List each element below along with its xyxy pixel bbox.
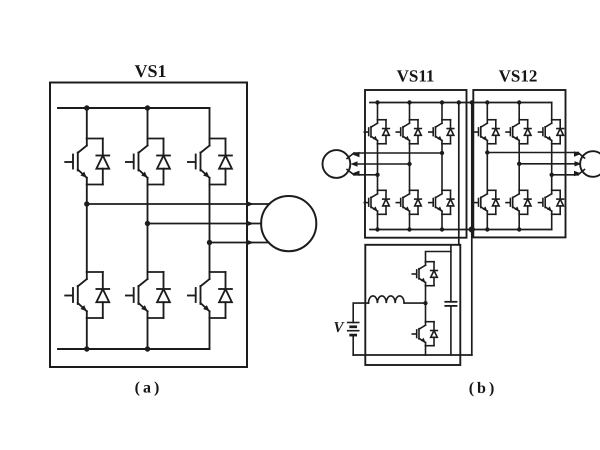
IGBT V5 with freewheel diode (VS1 top row leg3) bbox=[187, 139, 232, 185]
wire phase U output (a) bbox=[87, 203, 269, 205]
battery V plate long bottom bbox=[348, 330, 359, 332]
junction DC+ rail x=409.5 bbox=[407, 100, 411, 104]
wire phase W output (a) bbox=[210, 242, 269, 244]
wire leg x=377.5 lower (b) bbox=[377, 214, 379, 229]
capacitor C plate bottom bbox=[445, 305, 456, 307]
IGBT V13 with diode (VS11 top) bbox=[396, 120, 422, 144]
svg-text:VS11: VS11 bbox=[397, 67, 435, 86]
junction DC+ rail x=377.5 bbox=[375, 100, 379, 104]
wire battery bottom lead bbox=[352, 335, 354, 355]
arrow VS11 phase top bbox=[353, 152, 360, 157]
wire leg x=487.3 lower (b) bbox=[486, 214, 488, 229]
wire chopper midpoint bbox=[425, 286, 427, 322]
VS1 DC+ rail bbox=[58, 107, 210, 109]
IGBT V15 with diode (VS11 top) bbox=[428, 120, 454, 144]
wire leg x=442.0 upper (b) bbox=[441, 103, 443, 120]
VS1 DC- rail bbox=[58, 348, 210, 350]
junction DC- rail x=377.5 bbox=[375, 227, 379, 231]
wire DC+ bus vertical W1 bbox=[458, 103, 460, 245]
svg-text:(a): (a) bbox=[135, 380, 163, 397]
junction DC- rail x=442.0 bbox=[440, 227, 444, 231]
IGBT V1 with freewheel diode (VS1 top row leg1) bbox=[64, 139, 109, 185]
wire VS11 phase bottom diagonal bbox=[347, 170, 354, 175]
wire leg x=377.5 middle (b) bbox=[377, 144, 379, 191]
wire leg x=551.7 lower (b) bbox=[551, 214, 553, 229]
wire leg x=519.2 lower (b) bbox=[518, 214, 520, 229]
arrow VS11 phase mid bbox=[351, 161, 358, 166]
chopper box (b) bbox=[365, 245, 460, 365]
arrow phase W (a) bbox=[246, 240, 254, 246]
junction phase W / leg3 bbox=[207, 240, 212, 245]
IGBT V23 with diode (VS12 top) bbox=[505, 120, 531, 144]
wire DC- bottom rail (b) bbox=[353, 354, 472, 356]
arrow phase V (a) bbox=[246, 221, 254, 227]
IGBT V12 with diode (VS11 bottom) bbox=[428, 190, 454, 214]
battery V plate long top bbox=[348, 322, 359, 324]
battery V plate short top bbox=[351, 325, 356, 328]
arrow VS12 phase mid bbox=[575, 161, 582, 166]
IGBT V26 with diode (VS12 bottom) bbox=[505, 190, 531, 214]
wire VS1 leg1 lower bbox=[86, 318, 88, 349]
shared DC+ rail (b) bbox=[370, 102, 552, 104]
wire leg x=487.3 upper (b) bbox=[486, 103, 488, 120]
junction VS11 phase mid / leg2 bbox=[407, 162, 411, 166]
junction DC+ rail x=458.8 bbox=[457, 100, 461, 104]
IGBT V6 with freewheel diode (VS1 bottom row leg2) bbox=[125, 272, 170, 318]
wire VS11 phase top bbox=[354, 152, 442, 154]
wire inductor to midpoint bbox=[404, 302, 425, 304]
wire VS11 phase top diagonal bbox=[347, 153, 354, 159]
wire leg x=487.3 middle (b) bbox=[486, 144, 488, 191]
wire VS11 phase bottom bbox=[354, 174, 378, 176]
junction midpoint / inductor bbox=[423, 301, 427, 305]
wire leg x=551.7 middle (b) bbox=[551, 144, 553, 191]
wire VS1 leg3 middle bbox=[209, 185, 211, 273]
wire chopper upper collector bbox=[426, 252, 451, 262]
arrow phase U (a) bbox=[246, 201, 254, 207]
inverter box VS12 bbox=[473, 90, 565, 237]
svg-text:(b): (b) bbox=[469, 380, 498, 397]
inverter box VS11 bbox=[365, 90, 467, 238]
junction VS1 leg2 / DC- rail bbox=[145, 346, 150, 351]
inverter box VS1 bbox=[50, 83, 247, 368]
junction DC- rail x=409.5 bbox=[407, 227, 411, 231]
junction VS1 leg1 / DC+ rail bbox=[84, 105, 89, 110]
IGBT V2 with freewheel diode (VS1 bottom row leg3) bbox=[187, 272, 232, 318]
junction VS11 phase bottom / leg1 bbox=[375, 173, 379, 177]
junction VS12 phase top / leg1 bbox=[485, 150, 489, 154]
shared DC- rail (b) bbox=[370, 229, 552, 231]
wire capacitor lower bbox=[450, 306, 452, 355]
wire VS1 leg1 middle bbox=[86, 185, 88, 273]
arrow VS11 phase bottom bbox=[353, 171, 360, 176]
wire leg x=409.5 upper (b) bbox=[409, 103, 411, 120]
junction DC+ rail x=487.3 bbox=[485, 100, 489, 104]
IGBT V11 with diode (VS11 top) bbox=[364, 120, 390, 144]
junction DC- rail / DC- bus wire bbox=[469, 226, 475, 232]
junction VS12 phase bottom / leg3 bbox=[550, 173, 554, 177]
wire VS12 phase bottom diagonal bbox=[578, 170, 585, 175]
IGBT V14 with diode (VS11 bottom) bbox=[364, 190, 390, 214]
wire VS12 phase top bbox=[487, 152, 578, 154]
wire VS12 phase bottom bbox=[552, 174, 578, 176]
junction DC- rail x=487.3 bbox=[485, 227, 489, 231]
IGBT V16 with diode (VS11 bottom) bbox=[396, 190, 422, 214]
wire VS11 phase mid bbox=[354, 163, 410, 165]
IGBT V22 with diode (VS12 bottom) bbox=[538, 190, 564, 214]
wire VS1 leg2 middle bbox=[147, 185, 149, 273]
IGBT V25 with diode (VS12 top) bbox=[538, 120, 564, 144]
IGBT VC2 with diode (chopper lower) bbox=[412, 322, 438, 346]
wire leg x=442.0 middle (b) bbox=[441, 144, 443, 191]
IGBT V4 with freewheel diode (VS1 bottom row leg1) bbox=[64, 272, 109, 318]
arrow VS12 phase bottom bbox=[574, 171, 581, 176]
wire leg x=519.2 middle (b) bbox=[518, 144, 520, 191]
wire VS1 leg1 upper bbox=[86, 108, 88, 139]
wire VS1 leg2 upper bbox=[147, 108, 149, 139]
battery V plate short bottom bbox=[351, 334, 356, 337]
wire leg x=409.5 middle (b) bbox=[409, 144, 411, 191]
wire VS12 phase mid bbox=[519, 163, 578, 165]
wire VS1 leg3 lower bbox=[209, 318, 211, 349]
IGBT V3 with freewheel diode (VS1 top row leg2) bbox=[125, 139, 170, 185]
junction phase U / leg1 bbox=[84, 201, 89, 206]
IGBT V21 with diode (VS12 top) bbox=[473, 120, 499, 144]
IGBT VC1 with diode (chopper upper) bbox=[412, 262, 438, 286]
wire VS1 leg2 lower bbox=[147, 318, 149, 349]
wire battery top lead bbox=[353, 303, 368, 322]
arrow VS12 phase top bbox=[574, 151, 581, 156]
wire DC- bus vertical W2 bbox=[471, 103, 473, 356]
wire leg x=409.5 lower (b) bbox=[409, 214, 411, 229]
junction DC+ rail x=442.0 bbox=[440, 100, 444, 104]
wire VS12 phase top diagonal bbox=[578, 153, 585, 159]
junction VS12 phase mid / leg2 bbox=[517, 162, 521, 166]
svg-text:VS1: VS1 bbox=[134, 61, 166, 81]
IGBT V24 with diode (VS12 bottom) bbox=[473, 190, 499, 214]
motor M2 (b right) bbox=[580, 151, 600, 177]
junction VS11 phase top / leg3 bbox=[440, 151, 444, 155]
svg-text:VS12: VS12 bbox=[499, 67, 538, 86]
junction DC+ rail x=519.2 bbox=[517, 100, 521, 104]
inductor L bbox=[369, 296, 405, 303]
junction phase V / leg2 bbox=[145, 221, 150, 226]
junction DC+ rail x=471.8 bbox=[470, 100, 474, 104]
junction VS1 leg2 / DC+ rail bbox=[145, 105, 150, 110]
wire leg x=551.7 upper (b) bbox=[551, 103, 553, 120]
wire leg x=519.2 upper (b) bbox=[518, 103, 520, 120]
wire capacitor upper bbox=[450, 245, 452, 302]
motor M (a) bbox=[261, 196, 316, 251]
capacitor C plate top bbox=[445, 301, 456, 303]
junction DC- rail x=519.2 bbox=[517, 227, 521, 231]
wire leg x=377.5 upper (b) bbox=[377, 103, 379, 120]
motor M1 (b left) bbox=[323, 150, 351, 178]
wire phase V output (a) bbox=[148, 223, 262, 225]
wire chopper lower emitter bbox=[425, 346, 427, 355]
svg-text:V: V bbox=[333, 320, 345, 336]
wire VS1 leg3 upper bbox=[209, 108, 211, 139]
junction VS1 leg1 / DC- rail bbox=[84, 346, 89, 351]
wire leg x=442.0 lower (b) bbox=[441, 214, 443, 229]
